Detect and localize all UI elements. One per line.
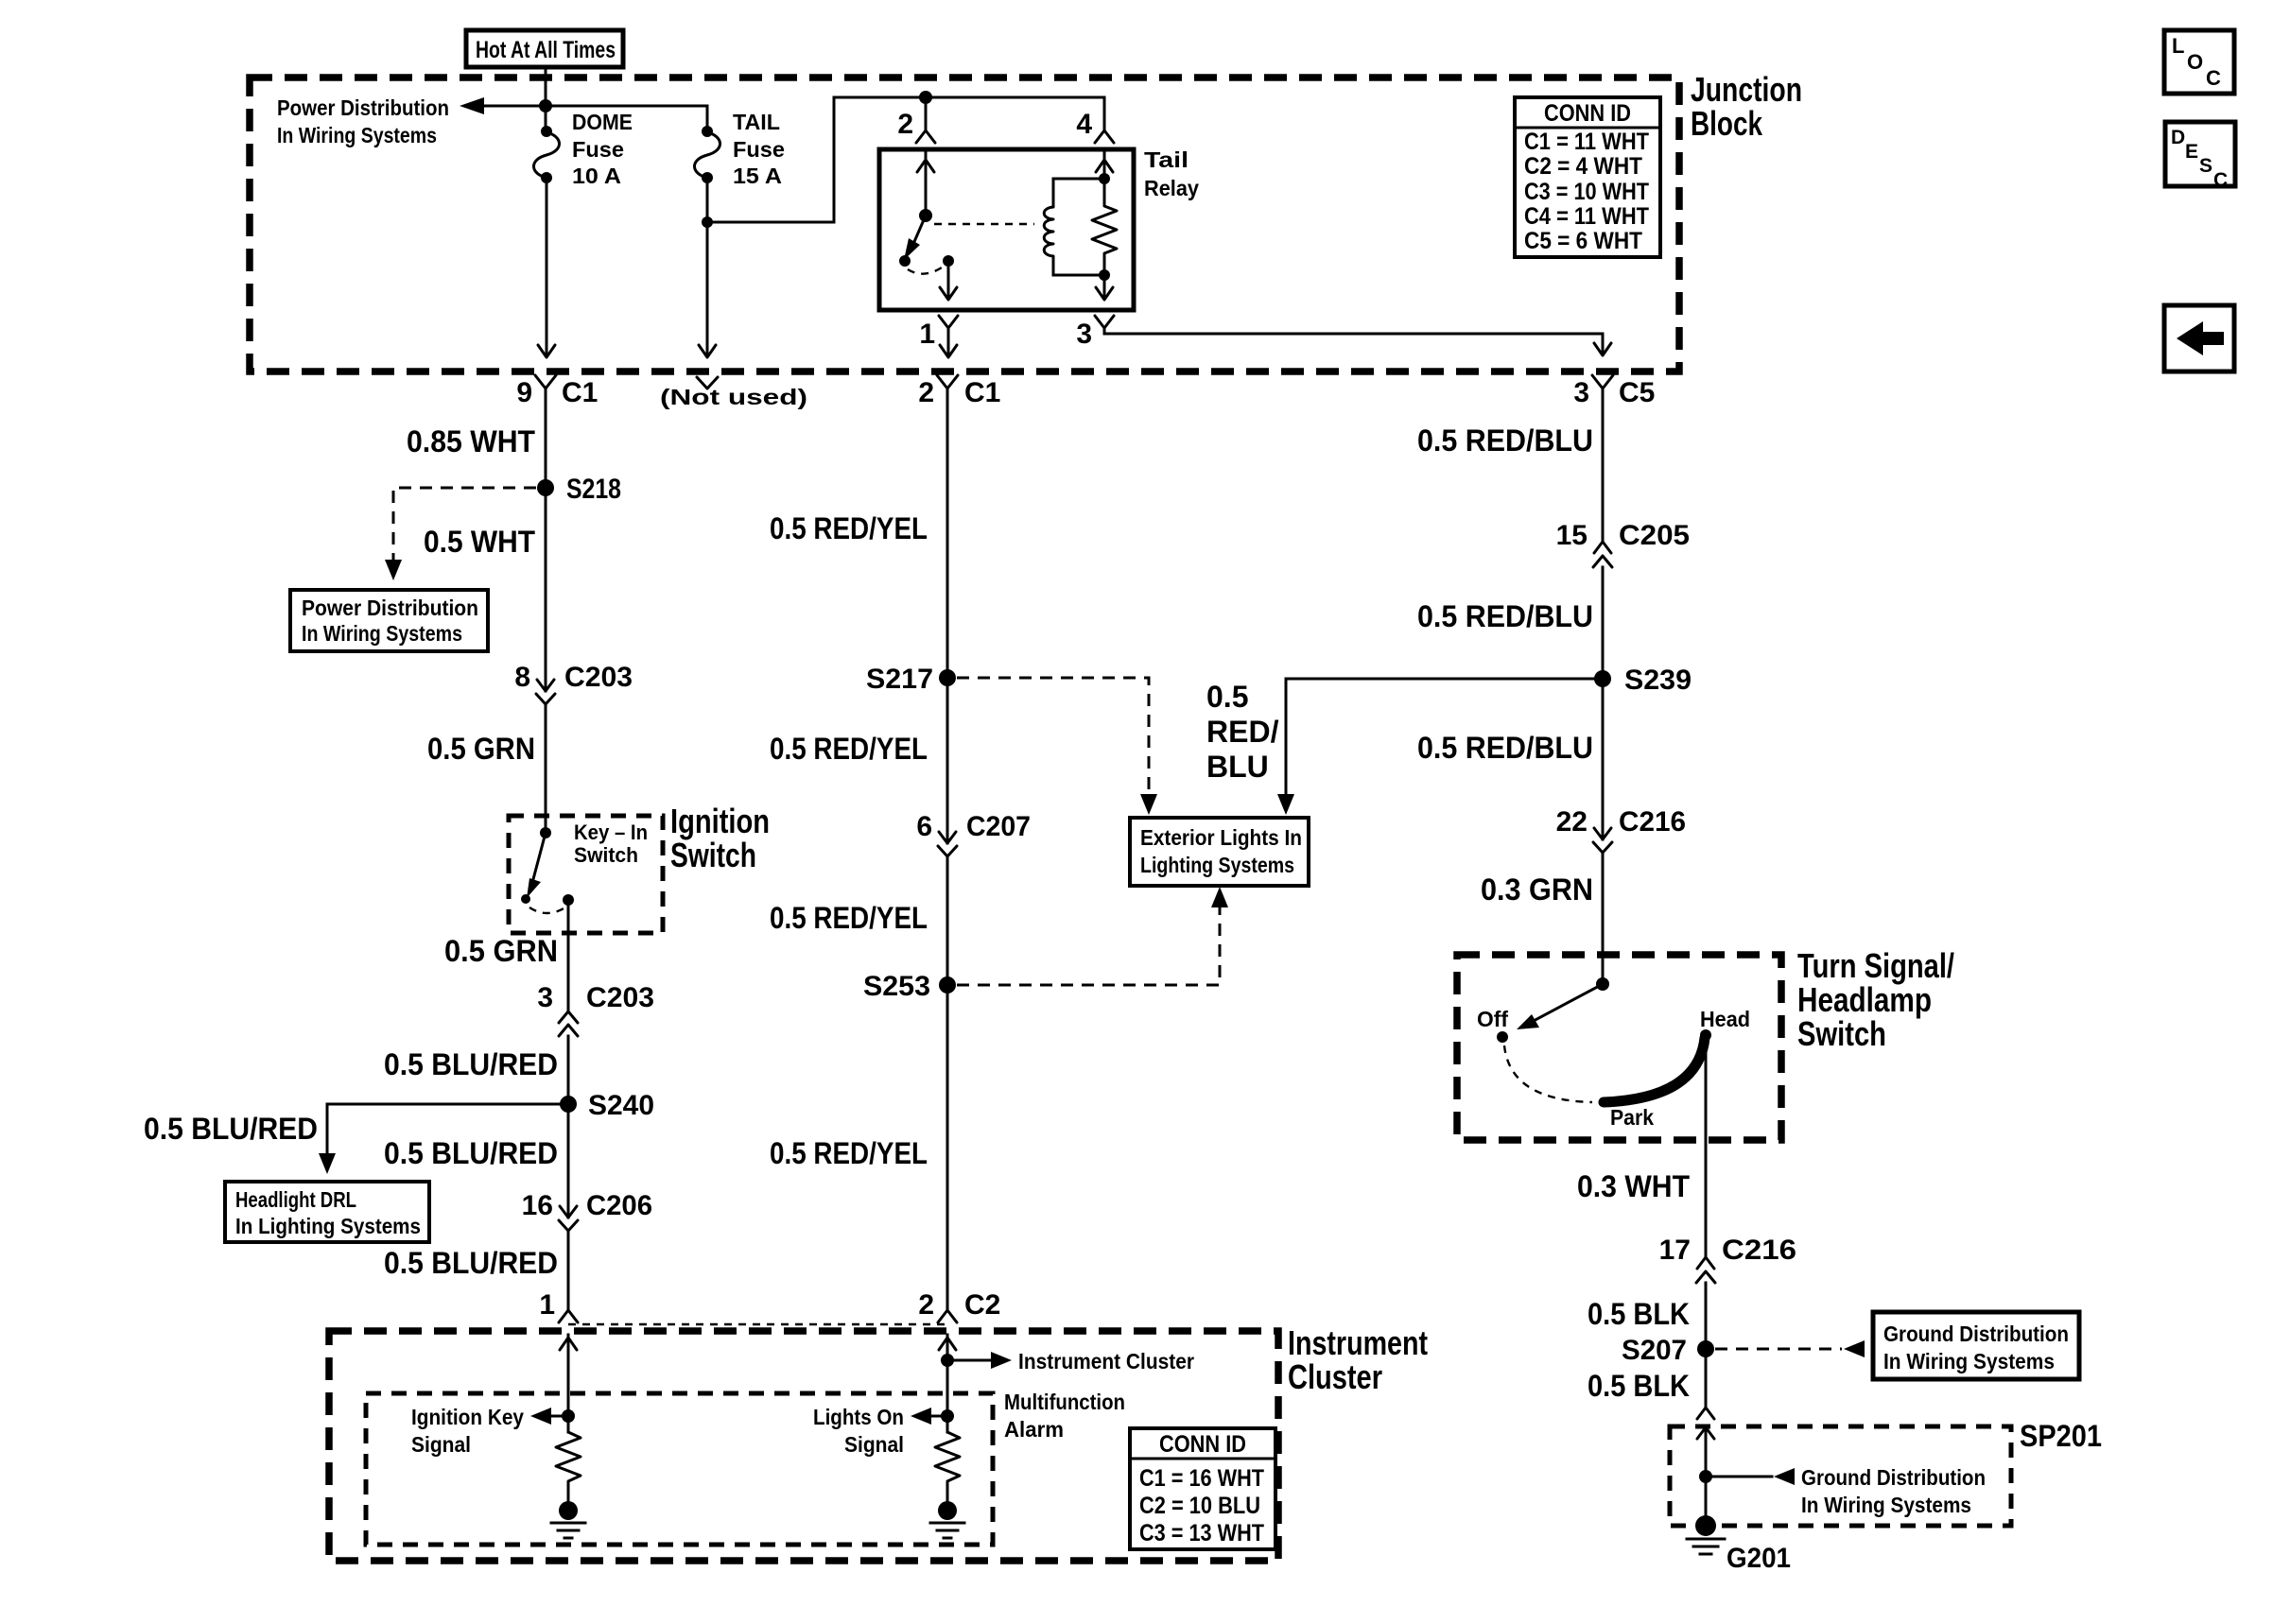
svg-text:C205: C205 [1619, 520, 1690, 551]
svg-text:C2 = 4 WHT: C2 = 4 WHT [1524, 153, 1642, 180]
headlamp switch blade with arrow [1532, 984, 1603, 1022]
svg-text:Headlamp: Headlamp [1797, 980, 1932, 1019]
wire stem below connector 2 C1 [946, 389, 949, 402]
wire inside SP201 [1705, 1427, 1708, 1522]
svg-text:0.5 RED/YEL: 0.5 RED/YEL [770, 511, 928, 545]
wire from Hot At All Times down to bus [545, 68, 547, 130]
wire relay pin 4 drop [1103, 97, 1106, 130]
svg-text:C203: C203 [586, 982, 654, 1013]
node TAIL fuse tap [702, 216, 713, 228]
key-in switch throw arc [529, 907, 565, 913]
in-line connector 22 C216 [1556, 806, 1686, 853]
svg-text:15: 15 [1556, 520, 1588, 551]
relay coil L1 [1044, 179, 1053, 275]
connector 3 C5 half below junction block [1592, 375, 1613, 389]
svg-text:0.5 WHT: 0.5 WHT [424, 525, 535, 559]
key-in switch blade with arrow [533, 833, 546, 879]
relay coil loop wires [1053, 179, 1104, 275]
svg-text:C3 = 10 WHT: C3 = 10 WHT [1524, 179, 1649, 205]
svg-text:Exterior Lights In: Exterior Lights In [1140, 825, 1302, 850]
ground symbol middle [930, 1523, 964, 1538]
arrow up into Exterior Lights box bottom [1211, 887, 1228, 907]
svg-text:C1: C1 [562, 377, 598, 408]
node relay feed split [919, 91, 932, 104]
wire stem below connector 9 C1 [545, 389, 547, 402]
wire relay pin 2 drop [925, 97, 928, 130]
reference box frame [1130, 1428, 1275, 1549]
arrow right wire exits junction block [1594, 343, 1611, 355]
key-in switch blade arrowhead [527, 878, 541, 898]
CONN ID header rule [1515, 127, 1660, 130]
dashed branch from S253 up to Exterior Lights [957, 906, 1220, 985]
connector half below border (not used) [697, 377, 718, 389]
svg-text:Tail: Tail [1144, 147, 1189, 172]
arrow to Ignition Key Signal [530, 1408, 551, 1425]
svg-text:0.3 WHT: 0.3 WHT [1577, 1169, 1690, 1203]
svg-text:0.5 BLU/RED: 0.5 BLU/RED [384, 1047, 558, 1081]
reference box frame [1873, 1312, 2079, 1379]
arrow middle wire exits junction block [940, 345, 957, 357]
Ground Distribution In Wiring Systems reference box [1873, 1312, 2079, 1379]
thin dashed connector link line [568, 1323, 947, 1325]
relay resistor R1 [1092, 185, 1117, 268]
svg-text:4: 4 [1076, 109, 1092, 140]
LOC reference box [2164, 30, 2234, 94]
node coil top [1099, 173, 1110, 184]
wire left into cluster [567, 1335, 570, 1432]
svg-text:0.85 WHT: 0.85 WHT [407, 424, 535, 458]
arrow down to Exterior Lights box (left) [1140, 794, 1157, 815]
relay switch blade with arrow [913, 216, 926, 244]
svg-text:S207: S207 [1622, 1335, 1687, 1366]
wire segment [559, 1011, 578, 1036]
svg-text:In Wiring Systems: In Wiring Systems [277, 123, 437, 147]
Headlight DRL In Lighting Systems reference box [225, 1182, 429, 1242]
svg-text:Ignition Key: Ignition Key [411, 1405, 524, 1429]
relay actuation dashed link [934, 223, 1034, 225]
node coil bottom [1099, 269, 1110, 281]
reference box frame [290, 590, 488, 651]
svg-text:E: E [2185, 141, 2198, 163]
arrow down to Power Distribution box [385, 560, 402, 580]
svg-text:C5: C5 [1619, 377, 1655, 408]
ignition switch dashed box [509, 816, 663, 933]
reference box frame [1515, 97, 1660, 257]
branch to Instrument Cluster arrow [947, 1359, 991, 1362]
wire below C207 [946, 856, 949, 1309]
svg-text:0.5 GRN: 0.5 GRN [427, 732, 535, 766]
wire 0.5 BLK segment [1705, 1283, 1708, 1408]
splice S217 [939, 669, 956, 686]
svg-text:1: 1 [539, 1289, 555, 1321]
svg-text:Lighting Systems: Lighting Systems [1140, 853, 1294, 877]
svg-text:BLU: BLU [1206, 750, 1269, 784]
svg-text:0.5: 0.5 [1206, 680, 1248, 714]
ground G201 dot [1695, 1515, 1716, 1536]
svg-text:Switch: Switch [574, 843, 638, 867]
node lights on signal tap [941, 1409, 954, 1423]
splice S218 [537, 479, 554, 496]
svg-text:3: 3 [1076, 319, 1092, 350]
node relay switch pole [919, 209, 932, 222]
CONN ID table (instrument cluster) [1130, 1428, 1275, 1549]
wire 0.85 WHT segment [545, 402, 547, 833]
arrow down to Headlight DRL box [319, 1153, 336, 1174]
svg-text:Signal: Signal [411, 1432, 471, 1457]
svg-text:CONN ID: CONN ID [1544, 100, 1631, 127]
arrow up at cluster entry middle [939, 1338, 956, 1350]
svg-text:Ground Distribution: Ground Distribution [1801, 1465, 1986, 1490]
svg-text:Ground Distribution: Ground Distribution [1883, 1322, 2069, 1346]
svg-text:0.5 RED/YEL: 0.5 RED/YEL [770, 1136, 928, 1170]
reference box frame [225, 1182, 429, 1242]
relay contact right [943, 255, 954, 267]
svg-text:Park: Park [1610, 1105, 1654, 1130]
branch to Ignition Key Signal [542, 1415, 568, 1418]
svg-text:S217: S217 [866, 664, 933, 695]
dashed branch from S207 to Ground Distribution [1715, 1348, 1842, 1351]
node instrument cluster tap [941, 1354, 954, 1367]
ground G201 symbol [1687, 1539, 1725, 1554]
svg-text:Power Distribution: Power Distribution [302, 596, 478, 620]
svg-text:C216: C216 [1619, 806, 1686, 838]
svg-text:S253: S253 [863, 971, 930, 1002]
svg-text:S218: S218 [566, 474, 621, 505]
fuse TAIL element [694, 132, 720, 178]
in-line connector 6 C207 [916, 811, 1031, 856]
svg-text:RED/: RED/ [1206, 715, 1279, 749]
svg-text:Lights On: Lights On [813, 1405, 904, 1429]
wire segment [938, 832, 957, 856]
svg-text:D: D [2171, 127, 2185, 148]
svg-text:C3 = 13 WHT: C3 = 13 WHT [1139, 1520, 1264, 1546]
pin 3 connector prongs [1095, 316, 1114, 328]
arrow up at relay pin 2 inside [917, 160, 934, 172]
svg-text:0.5 BLU/RED: 0.5 BLU/RED [144, 1112, 318, 1146]
svg-text:In Wiring Systems: In Wiring Systems [1883, 1349, 2055, 1373]
svg-text:S240: S240 [588, 1090, 654, 1121]
arrow TAIL wire exits junction block (not used) [699, 345, 716, 357]
in-line connector 3 C203 [537, 982, 654, 1036]
svg-text:S: S [2199, 155, 2212, 177]
svg-text:2: 2 [897, 109, 913, 140]
turn signal / headlamp switch dashed box [1457, 955, 1781, 1140]
svg-text:Headlight DRL: Headlight DRL [235, 1187, 356, 1212]
fuse TAIL terminals [702, 126, 713, 137]
svg-text:DOME: DOME [572, 110, 633, 134]
svg-text:0.5 RED/BLU: 0.5 RED/BLU [1417, 423, 1593, 458]
key-in switch pole node [540, 827, 551, 838]
wire relay contact to pin 1 [947, 261, 950, 297]
branch wire from S239 to Exterior Lights [1285, 679, 1288, 800]
splice S207 [1697, 1340, 1714, 1357]
svg-text:Off: Off [1477, 1007, 1508, 1031]
fuse DOME element [533, 132, 559, 178]
svg-text:8: 8 [514, 662, 530, 693]
in-line connector at SP201 boundary [1697, 1408, 1714, 1439]
branch to Ground Distribution (SP201) [1706, 1476, 1772, 1478]
contact Head [1700, 1029, 1711, 1041]
in-line connector 17 C216 [1659, 1235, 1796, 1283]
svg-text:Multifunction: Multifunction [1004, 1390, 1125, 1414]
svg-text:C203: C203 [564, 662, 633, 693]
ground dot middle [938, 1501, 957, 1520]
svg-text:O: O [2187, 50, 2203, 74]
svg-text:Instrument Cluster: Instrument Cluster [1018, 1349, 1194, 1373]
svg-text:C1 = 11 WHT: C1 = 11 WHT [1524, 129, 1649, 155]
svg-text:Ignition: Ignition [670, 802, 770, 840]
svg-text:Fuse: Fuse [572, 137, 624, 162]
svg-text:0.5 RED/YEL: 0.5 RED/YEL [770, 901, 928, 935]
in-line connector 16 C206 [522, 1190, 652, 1231]
wire 0.5 RED/YEL segment [946, 402, 949, 843]
svg-text:In Wiring Systems: In Wiring Systems [302, 621, 462, 646]
svg-text:C4 = 11 WHT: C4 = 11 WHT [1524, 203, 1649, 230]
svg-text:SP201: SP201 [2020, 1419, 2102, 1453]
branch wire from S239 toward Exterior Lights [1286, 678, 1594, 681]
splice S239 [1594, 670, 1611, 687]
wire segment [1593, 828, 1612, 853]
wire segment [536, 680, 555, 704]
contact Off [1497, 1031, 1508, 1043]
relay U1 Tail Relay box [879, 149, 1134, 310]
wire relay pin 3 to right exit [1104, 334, 1603, 354]
svg-text:C216: C216 [1722, 1235, 1796, 1266]
svg-text:17: 17 [1659, 1235, 1691, 1266]
svg-text:Power Distribution: Power Distribution [277, 95, 449, 120]
CONN ID header rule [1130, 1458, 1275, 1460]
svg-text:6: 6 [916, 811, 932, 842]
arrow down to relay pin 3 [1096, 287, 1113, 300]
node ignition key signal tap [562, 1409, 575, 1423]
node junction at power bus [539, 99, 552, 112]
svg-text:C: C [2213, 169, 2228, 191]
svg-text:Alarm: Alarm [1004, 1417, 1064, 1442]
svg-text:Key – In: Key – In [574, 821, 648, 844]
branch to Lights On Signal [922, 1415, 947, 1418]
svg-text:C5 = 6 WHT: C5 = 6 WHT [1524, 228, 1642, 254]
svg-text:TAIL: TAIL [733, 110, 780, 134]
connector 1 half prongs down [559, 1310, 578, 1322]
svg-text:Head: Head [1700, 1007, 1750, 1031]
ground dot left [559, 1501, 578, 1520]
instrument cluster dashed boundary [329, 1331, 1278, 1561]
svg-text:Instrument: Instrument [1288, 1323, 1428, 1362]
Power Distribution In Wiring Systems reference box [290, 590, 488, 651]
svg-text:C2 = 10 BLU: C2 = 10 BLU [1139, 1493, 1260, 1519]
svg-text:3: 3 [1573, 377, 1589, 408]
in-line connector 8 C203 [514, 662, 633, 704]
relay switch common wire [925, 151, 928, 216]
pin 2 connector prongs [916, 130, 935, 143]
key-in switch contact right [563, 894, 574, 906]
wire TAIL fuse down and to relay feed [707, 97, 1104, 355]
Hot At All Times box [466, 30, 623, 67]
reference box frame [2164, 30, 2234, 94]
dashed branch from S217 to Exterior Lights [957, 678, 1149, 800]
arrow to Instrument Cluster label [991, 1352, 1012, 1369]
wire middle into cluster [946, 1335, 949, 1432]
pin 4 connector prongs [1095, 130, 1114, 143]
splice S253 [939, 976, 956, 993]
inner dashed box signals [366, 1393, 993, 1545]
wire segment [1774, 1468, 1795, 1485]
CONN ID table (junction block) [1515, 97, 1660, 257]
svg-text:C206: C206 [586, 1190, 652, 1221]
svg-text:Hot At All Times: Hot At All Times [476, 37, 616, 63]
svg-text:C: C [2206, 66, 2221, 90]
in-line connector 15 C205 [1556, 520, 1690, 567]
svg-text:0.5 RED/YEL: 0.5 RED/YEL [770, 732, 928, 766]
svg-text:In Lighting Systems: In Lighting Systems [235, 1214, 421, 1238]
svg-text:C207: C207 [966, 811, 1031, 842]
svg-text:15 A: 15 A [733, 164, 782, 188]
reference box frame [1130, 818, 1309, 886]
wire relay pin 1 stem [947, 328, 950, 340]
svg-text:0.5 BLK: 0.5 BLK [1588, 1297, 1690, 1331]
svg-text:2: 2 [918, 1289, 934, 1321]
resistor lights on signal [935, 1432, 960, 1501]
svg-text:3: 3 [537, 982, 553, 1013]
svg-text:Fuse: Fuse [733, 137, 785, 162]
arrow down to Exterior Lights box (right) [1277, 794, 1294, 815]
relay switch blade arrowhead [904, 238, 920, 260]
wire 0.5 BLU/RED segment [567, 1036, 570, 1309]
reference box frame [2164, 305, 2234, 371]
svg-text:0.5 BLK: 0.5 BLK [1588, 1369, 1690, 1403]
svg-text:Switch: Switch [1797, 1014, 1886, 1053]
relay coil feed wire pin 4 [1103, 151, 1106, 297]
DESC reference box [2165, 122, 2235, 191]
reference box frame [2165, 122, 2235, 186]
wire relay pin 3 stem [1103, 328, 1106, 334]
wire below C205 [1602, 567, 1605, 984]
svg-text:0.5 BLU/RED: 0.5 BLU/RED [384, 1136, 558, 1170]
svg-text:Block: Block [1691, 104, 1763, 143]
headlamp switch thick arc Head-Park [1604, 1038, 1705, 1102]
svg-text:(Not used): (Not used) [660, 385, 807, 409]
svg-text:G201: G201 [1726, 1543, 1791, 1574]
headlamp switch dashed arc Off-Park [1504, 1045, 1592, 1102]
svg-text:Turn Signal/: Turn Signal/ [1797, 946, 1954, 985]
arrow tip left at Ground Distribution box [1844, 1340, 1865, 1357]
Exterior Lights In Lighting Systems reference box [1130, 818, 1309, 886]
pin 1 connector prongs [939, 316, 958, 328]
back arrow glyph [2177, 321, 2224, 355]
wire segment [1696, 1257, 1715, 1283]
svg-text:C1 = 16 WHT: C1 = 16 WHT [1139, 1465, 1264, 1492]
headlamp switch pole node [1596, 977, 1609, 991]
arrow up at cluster entry left [560, 1338, 577, 1350]
arrow down to relay pin 1 [940, 287, 957, 300]
wire out of ignition switch [567, 900, 570, 1011]
connector 2 C1 half below junction block [937, 375, 958, 389]
svg-text:0.5 RED/BLU: 0.5 RED/BLU [1417, 599, 1593, 633]
svg-text:C1: C1 [964, 377, 1000, 408]
node ground distribution tap [1699, 1470, 1712, 1483]
svg-text:10 A: 10 A [572, 164, 621, 188]
svg-text:0.5 RED/BLU: 0.5 RED/BLU [1417, 731, 1593, 765]
wire relay pin 1 to border [947, 340, 950, 355]
svg-text:In Wiring Systems: In Wiring Systems [1801, 1493, 1971, 1517]
svg-text:22: 22 [1556, 806, 1588, 838]
wire DOME fuse to bottom border [546, 178, 548, 355]
svg-text:0.3 GRN: 0.3 GRN [1481, 872, 1593, 907]
relay contact left [899, 255, 911, 267]
SP201 dashed box [1670, 1426, 2011, 1526]
junction block dashed boundary [250, 78, 1679, 371]
connector 2 C2 half prongs down [938, 1310, 957, 1322]
arrow up at relay pin 4 inside [1096, 160, 1113, 172]
resistor ignition key signal [556, 1432, 581, 1501]
svg-text:0.5 GRN: 0.5 GRN [444, 934, 558, 968]
svg-text:0.5 BLU/RED: 0.5 BLU/RED [384, 1246, 558, 1280]
svg-text:9: 9 [516, 377, 532, 408]
svg-text:2: 2 [918, 377, 934, 408]
svg-text:16: 16 [522, 1190, 553, 1221]
dashed branch from S218 [393, 488, 536, 565]
key-in switch contact left [521, 894, 530, 904]
branch wire from S240 to Headlight DRL [327, 1104, 560, 1159]
wire 0.3 WHT from Head contact [1705, 1035, 1708, 1257]
arrow to Lights On Signal [911, 1408, 931, 1425]
svg-text:S239: S239 [1624, 665, 1692, 696]
svg-text:Switch: Switch [670, 836, 756, 874]
arrow DOME wire exits junction block [538, 345, 555, 357]
wire stem below connector 3 C5 [1602, 389, 1605, 402]
svg-text:CONN ID: CONN ID [1159, 1431, 1246, 1458]
wire power bus horizontal [480, 106, 707, 130]
svg-text:Cluster: Cluster [1288, 1357, 1382, 1396]
svg-text:Junction: Junction [1691, 70, 1802, 109]
arrow to Power Distribution (left) [460, 97, 484, 114]
wire segment [1593, 542, 1612, 567]
connector 9 C1 half below junction block [535, 375, 556, 389]
fuse DOME terminals [541, 126, 552, 137]
wire segment [559, 1206, 578, 1231]
svg-text:L: L [2172, 34, 2184, 58]
back arrow box [2164, 305, 2234, 371]
svg-text:Signal: Signal [844, 1432, 904, 1457]
svg-text:Relay: Relay [1144, 176, 1199, 200]
svg-text:1: 1 [919, 319, 935, 350]
relay switch throw arc dashed [908, 266, 945, 274]
wire segment [1517, 1014, 1539, 1029]
ground symbol left [551, 1523, 585, 1538]
splice S240 [560, 1096, 577, 1113]
svg-text:C2: C2 [964, 1289, 1000, 1321]
wire 0.5 RED/BLU segment [1602, 402, 1605, 542]
